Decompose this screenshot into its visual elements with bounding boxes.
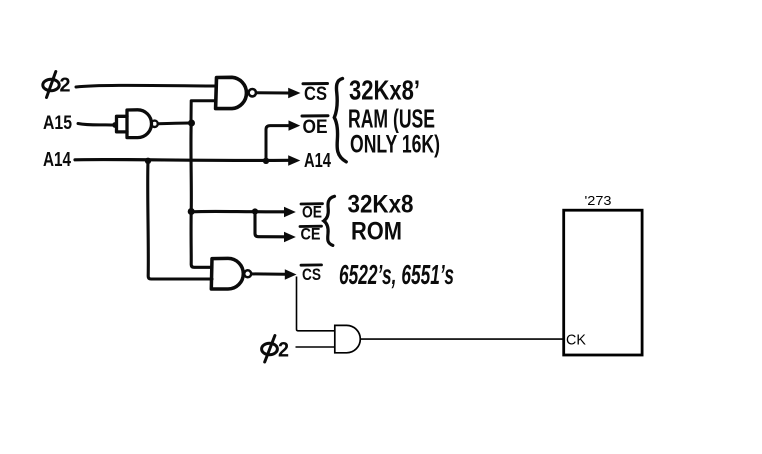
junction U2 tied inputs — [112, 122, 118, 128]
svg-text:ONLY 16K): ONLY 16K) — [350, 131, 440, 159]
svg-text:CE: CE — [301, 226, 321, 244]
brace RAM group — [334, 79, 346, 162]
junction A14 / U3 branch — [145, 158, 151, 164]
wire A14 across to A14 output arrow — [75, 158, 289, 162]
AND gate U4 — [335, 325, 361, 352]
node phi2 (top input label) — [43, 72, 59, 98]
wire U3 output to CS arrow (I/O) — [252, 272, 286, 275]
junction ROM OE/CE branch — [252, 208, 258, 214]
wire U1 output to CS arrow — [256, 91, 289, 94]
svg-text:CS: CS — [302, 266, 321, 284]
NAND gate U3 (lower) — [211, 258, 243, 289]
register U5 ('273 box) — [564, 210, 642, 355]
svg-text:A14: A14 — [304, 150, 332, 172]
junction node B2 on vertical at ROM branch — [188, 208, 195, 215]
svg-text:A14: A14 — [43, 149, 72, 171]
wire U2 output to junction node B — [158, 122, 190, 126]
brace ROM group — [324, 196, 335, 245]
svg-text:ROM: ROM — [351, 218, 402, 246]
wire node B up to U1 lower input — [191, 101, 216, 123]
svg-text:6522’s, 6551’s: 6522’s, 6551’s — [339, 259, 454, 290]
NAND gate U1 (top) — [216, 77, 247, 108]
wire A15 to NAND U2 input — [78, 124, 113, 126]
svg-text:2: 2 — [278, 339, 289, 362]
wire A14 junction down to NAND U3 lower input — [148, 161, 212, 279]
wire junction up to OE arrow (RAM) — [266, 126, 290, 161]
junction A14 / OE branch — [263, 158, 269, 164]
svg-text:2: 2 — [60, 75, 71, 97]
svg-text:'273: '273 — [585, 193, 612, 208]
node phi2 (lower input label) — [262, 336, 278, 363]
wire CS node down to AND U4 upper input — [297, 277, 335, 331]
wire node B2 to OE arrow (ROM) — [191, 210, 284, 214]
wire U4 output to register CK pin — [360, 338, 563, 340]
svg-text:32Kx8: 32Kx8 — [348, 191, 414, 219]
svg-text:CS: CS — [304, 84, 327, 105]
svg-text:CK: CK — [566, 332, 586, 348]
wire branch down to CE arrow (ROM) — [255, 212, 285, 237]
wire phi2 to AND U4 lower input — [296, 346, 335, 348]
wire phi2 to NAND U1 top input — [76, 85, 216, 87]
NAND gate U2 (A15 inverter) — [117, 110, 152, 138]
svg-text:RAM (USE: RAM (USE — [348, 104, 435, 134]
junction node B — [188, 120, 195, 127]
svg-text:A15: A15 — [43, 113, 72, 134]
wire node B down to NAND U3 upper input — [191, 123, 212, 267]
svg-text:32Kx8’: 32Kx8’ — [349, 75, 420, 106]
svg-text:OE: OE — [302, 204, 322, 222]
svg-text:OE: OE — [303, 117, 328, 138]
